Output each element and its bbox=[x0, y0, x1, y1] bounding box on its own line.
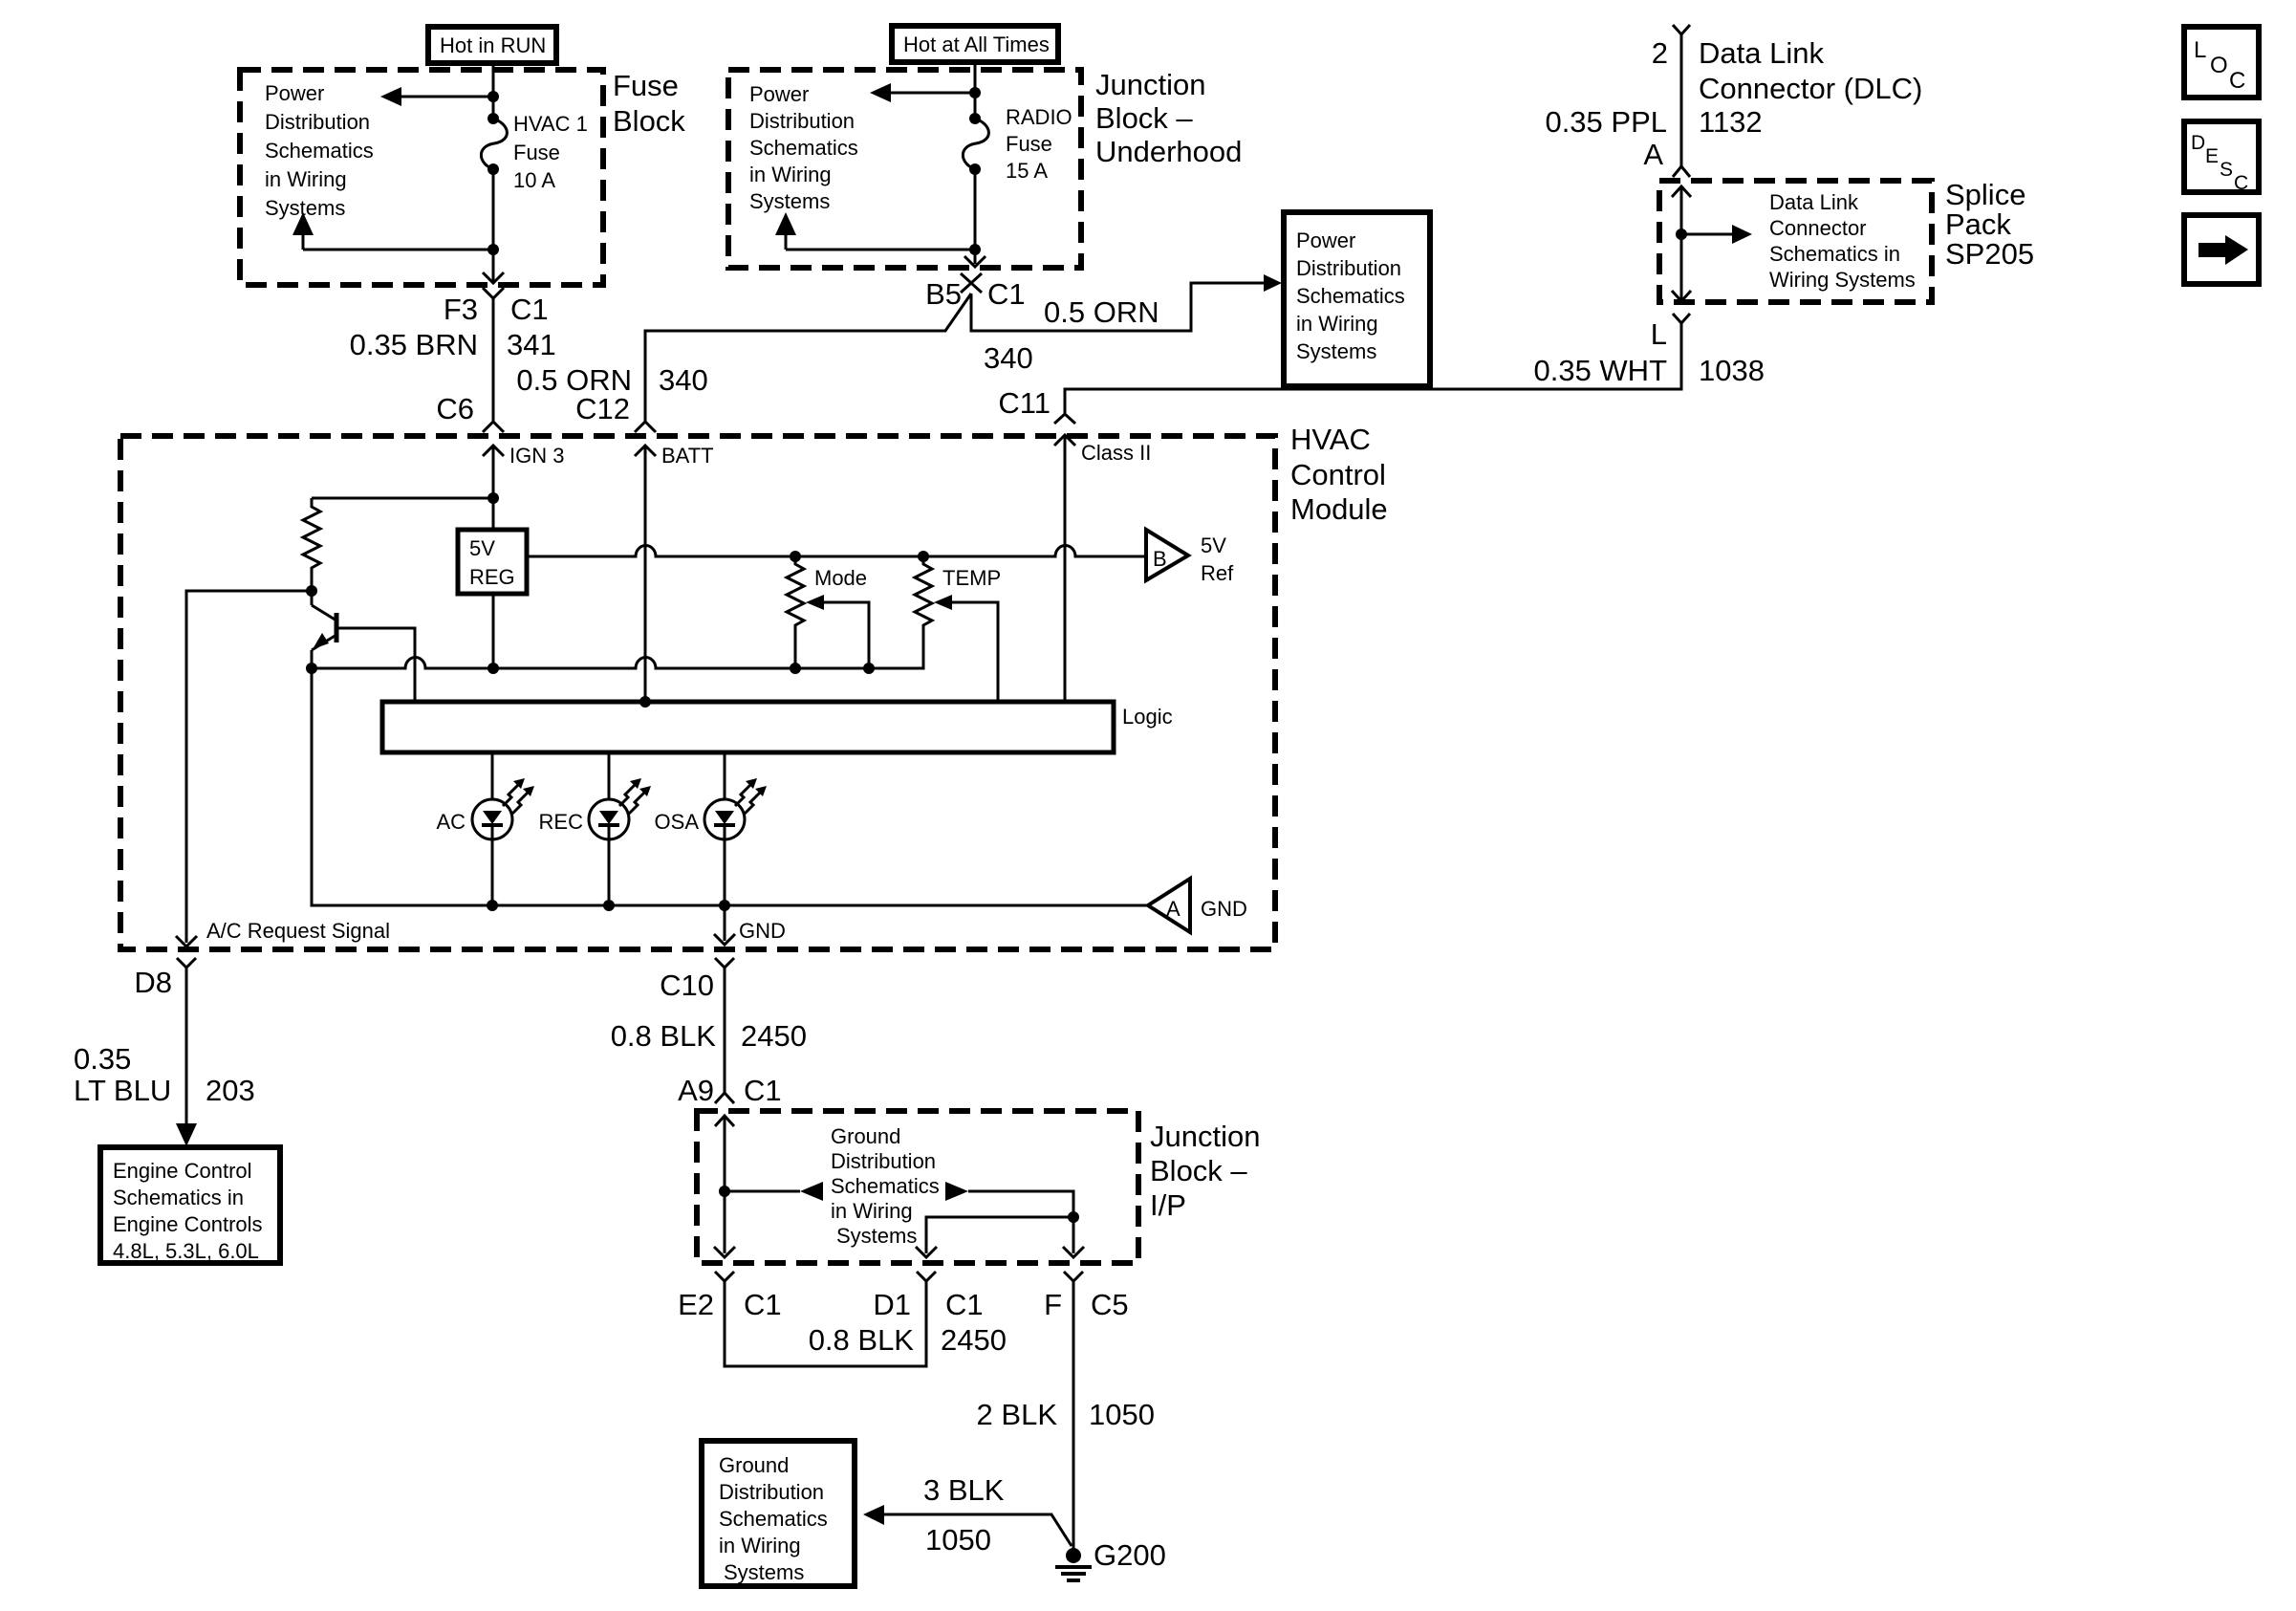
svg-text:Block –: Block – bbox=[1150, 1154, 1247, 1187]
arrow to power distribution (left) bbox=[380, 87, 493, 106]
splice node dot and arrow right bbox=[1676, 225, 1752, 244]
svg-text:BATT: BATT bbox=[661, 444, 714, 468]
Hot at All Times label box bbox=[892, 26, 1058, 62]
fuse HVAC 1 symbol bbox=[481, 113, 507, 175]
LOC box bbox=[2184, 27, 2259, 98]
3 BLK wire with arrow to box bbox=[863, 1505, 1072, 1546]
connector C11 bbox=[998, 386, 1075, 424]
splice bottom arrowhead bbox=[1672, 291, 1691, 301]
connector D1/C1 bbox=[873, 1272, 983, 1321]
connector A9/C1 bbox=[678, 1074, 782, 1107]
fuse label RADIO Fuse 15 A bbox=[1006, 105, 1072, 183]
DLC connector top bbox=[1673, 25, 1690, 166]
svg-text:Data Link: Data Link bbox=[1769, 190, 1859, 214]
svg-text:C1: C1 bbox=[510, 293, 549, 326]
Class II entry arrow bbox=[1054, 435, 1151, 702]
connector C12 bbox=[575, 392, 656, 432]
svg-text:IGN 3: IGN 3 bbox=[509, 444, 564, 468]
junction dot bbox=[969, 87, 981, 98]
wire label 0.5 ORN / 340 (right run) bbox=[984, 295, 1159, 375]
svg-text:0.5 ORN: 0.5 ORN bbox=[1044, 295, 1159, 329]
5V REG box bbox=[458, 530, 527, 594]
svg-text:C: C bbox=[2229, 68, 2245, 94]
label 2 / Data Link Connector (DLC) bbox=[1652, 36, 1923, 105]
svg-text:C: C bbox=[2234, 172, 2248, 194]
svg-text:A9: A9 bbox=[678, 1074, 714, 1107]
svg-text:Schematics: Schematics bbox=[265, 139, 374, 163]
wire label 0.35 WHT 1038 bbox=[1533, 354, 1765, 387]
svg-text:Schematics: Schematics bbox=[1296, 284, 1405, 308]
svg-text:341: 341 bbox=[507, 328, 556, 361]
svg-text:Schematics: Schematics bbox=[719, 1507, 828, 1531]
svg-text:D1: D1 bbox=[873, 1288, 911, 1321]
svg-text:Block –: Block – bbox=[1095, 101, 1193, 135]
svg-text:LT BLU: LT BLU bbox=[74, 1074, 171, 1107]
label F3 C1 bbox=[444, 293, 549, 326]
Junction Block I/P label bbox=[1150, 1120, 1260, 1222]
connector F3/C1 bbox=[483, 288, 504, 422]
svg-text:RADIO: RADIO bbox=[1006, 105, 1072, 129]
svg-text:Wiring Systems: Wiring Systems bbox=[1769, 268, 1916, 292]
Data Link Connector Schematics text bbox=[1769, 190, 1916, 292]
svg-text:HVAC 1: HVAC 1 bbox=[513, 112, 588, 136]
GND exit wire bbox=[714, 905, 786, 945]
svg-text:Schematics in: Schematics in bbox=[113, 1186, 244, 1209]
junction dot bbox=[719, 1186, 730, 1197]
wire diagonal from B5 to left run bbox=[645, 294, 971, 422]
wire label 0.35 PPL 1132 bbox=[1545, 105, 1762, 139]
svg-text:Schematics: Schematics bbox=[831, 1174, 940, 1198]
svg-text:Ref: Ref bbox=[1201, 561, 1234, 585]
svg-text:E: E bbox=[2205, 145, 2219, 167]
svg-text:1050: 1050 bbox=[925, 1523, 991, 1557]
svg-text:O: O bbox=[2210, 53, 2228, 78]
svg-text:Fuse: Fuse bbox=[613, 69, 679, 102]
svg-text:Pack: Pack bbox=[1945, 207, 2011, 241]
wire label 0.8 BLK 2450 (loop) bbox=[809, 1323, 1007, 1357]
svg-text:Distribution: Distribution bbox=[1296, 256, 1401, 280]
TEMP resistor bbox=[915, 556, 932, 631]
svg-text:Distribution: Distribution bbox=[265, 110, 370, 134]
svg-text:2450: 2450 bbox=[941, 1323, 1007, 1357]
Junction Block label bbox=[1095, 68, 1242, 168]
fuse RADIO symbol bbox=[963, 113, 988, 175]
svg-text:Distribution: Distribution bbox=[719, 1480, 824, 1504]
TEMP wiper arrow bbox=[934, 595, 998, 702]
Fuse Block label bbox=[613, 69, 685, 138]
wire from B5 down right to power dist box bbox=[971, 283, 1267, 331]
svg-text:Control: Control bbox=[1290, 458, 1386, 491]
svg-text:10 A: 10 A bbox=[513, 168, 555, 192]
connector B5/C1 break bbox=[961, 273, 982, 293]
junction dot on IGN3 wire bbox=[487, 492, 499, 504]
connector C10 bbox=[660, 958, 734, 1093]
svg-text:3 BLK: 3 BLK bbox=[923, 1473, 1005, 1507]
svg-text:1050: 1050 bbox=[1089, 1398, 1155, 1431]
return arrow up to Systems bbox=[775, 212, 975, 250]
wire from L down and left to C11 bbox=[1065, 323, 1681, 414]
svg-text:Junction: Junction bbox=[1095, 68, 1205, 101]
connector L bbox=[1651, 314, 1690, 351]
I/P entry arrow and vertical wire bbox=[714, 1116, 735, 1257]
svg-text:2 BLK: 2 BLK bbox=[977, 1398, 1058, 1431]
svg-text:Connector (DLC): Connector (DLC) bbox=[1699, 72, 1922, 105]
junction dot bbox=[487, 244, 499, 255]
svg-text:Class II: Class II bbox=[1081, 441, 1151, 465]
wire below fuse bbox=[974, 169, 977, 264]
svg-text:Fuse: Fuse bbox=[513, 141, 560, 164]
inner branch to D1 bbox=[916, 1211, 1079, 1257]
svg-text:L: L bbox=[2194, 37, 2206, 63]
svg-text:Junction: Junction bbox=[1150, 1120, 1260, 1153]
LED AC bbox=[436, 752, 534, 905]
svg-text:OSA: OSA bbox=[655, 810, 700, 834]
svg-text:C5: C5 bbox=[1091, 1288, 1129, 1321]
Ground Distribution Schematics box (solid) bbox=[702, 1441, 855, 1586]
svg-text:C1: C1 bbox=[744, 1288, 782, 1321]
exit arrowhead at fuse block bottom bbox=[483, 272, 504, 283]
wire to A/C request line bbox=[186, 591, 312, 943]
right arrow from Ground Distribution text bbox=[945, 1182, 1084, 1257]
5V line from REG right with hops bbox=[527, 545, 1144, 556]
svg-text:REC: REC bbox=[539, 810, 584, 834]
svg-text:C11: C11 bbox=[998, 386, 1051, 420]
Logic box bbox=[382, 702, 1173, 752]
Mode wiper arrow bbox=[806, 595, 869, 668]
label B5 C1 bbox=[925, 277, 1026, 311]
svg-text:GND: GND bbox=[1201, 897, 1247, 921]
Splice Pack label bbox=[1945, 178, 2034, 271]
wire below fuse bbox=[492, 169, 495, 281]
svg-text:in Wiring: in Wiring bbox=[719, 1534, 801, 1557]
ground bus bbox=[312, 668, 1148, 905]
svg-text:L: L bbox=[1651, 317, 1667, 351]
Power Distribution text (junction block) bbox=[749, 82, 858, 213]
svg-text:5V: 5V bbox=[469, 536, 495, 560]
svg-text:F3: F3 bbox=[444, 293, 478, 326]
svg-text:D: D bbox=[2191, 132, 2205, 154]
svg-text:Underhood: Underhood bbox=[1095, 135, 1242, 168]
dot at TEMP top bbox=[918, 551, 929, 562]
return arrow up to Systems bbox=[292, 212, 493, 250]
Ground Distribution text (I/P) bbox=[831, 1124, 940, 1248]
svg-text:340: 340 bbox=[659, 363, 708, 397]
svg-text:C1: C1 bbox=[744, 1074, 782, 1107]
svg-text:15 A: 15 A bbox=[1006, 159, 1048, 183]
wire from Hot in RUN down to fuse bbox=[492, 63, 495, 119]
svg-text:5V: 5V bbox=[1201, 533, 1226, 557]
Junction Block I/P dashed box bbox=[697, 1111, 1138, 1263]
svg-text:Schematics in: Schematics in bbox=[1769, 242, 1900, 266]
svg-text:0.35 PPL: 0.35 PPL bbox=[1545, 105, 1667, 139]
Fuse Block dashed box bbox=[240, 70, 603, 285]
Junction Block Underhood dashed box bbox=[728, 70, 1081, 268]
svg-text:340: 340 bbox=[984, 341, 1033, 375]
buffer A triangle GND bbox=[1148, 879, 1247, 932]
svg-text:Fuse: Fuse bbox=[1006, 132, 1052, 156]
svg-text:0.8 BLK: 0.8 BLK bbox=[809, 1323, 915, 1357]
svg-text:Logic: Logic bbox=[1122, 705, 1173, 729]
Power Distribution Schematics box (solid) bbox=[1284, 212, 1430, 386]
F wire down to G200 bbox=[1072, 1281, 1075, 1553]
left arrow to Ground Distribution text bbox=[725, 1182, 823, 1201]
buffer B triangle 5V Ref bbox=[1146, 530, 1234, 585]
fuse label HVAC 1 Fuse 10 A bbox=[513, 112, 588, 192]
svg-text:Systems: Systems bbox=[1296, 339, 1376, 363]
svg-text:Connector: Connector bbox=[1769, 216, 1867, 240]
svg-text:Power: Power bbox=[265, 81, 324, 105]
svg-text:0.35 WHT: 0.35 WHT bbox=[1533, 354, 1667, 387]
transistor Q1 bbox=[312, 591, 336, 668]
junction dot bbox=[969, 244, 981, 255]
emitter junction dot bbox=[306, 663, 317, 674]
svg-text:Hot at All Times: Hot at All Times bbox=[903, 33, 1050, 56]
wire label 0.35 LT BLU 203 bbox=[74, 1042, 255, 1107]
svg-text:REG: REG bbox=[469, 565, 515, 589]
svg-text:SP205: SP205 bbox=[1945, 237, 2034, 271]
wire label 2 BLK 1050 bbox=[977, 1398, 1155, 1431]
wire from 5V REG bottom bbox=[492, 594, 495, 668]
svg-text:Systems: Systems bbox=[749, 189, 830, 213]
A/C request exit arrowhead bbox=[176, 936, 197, 947]
svg-text:C10: C10 bbox=[660, 969, 714, 1002]
svg-text:C1: C1 bbox=[987, 277, 1026, 311]
svg-text:1132: 1132 bbox=[1699, 105, 1763, 139]
svg-text:A: A bbox=[1643, 138, 1663, 171]
dot BATT at logic bbox=[639, 696, 651, 708]
connector E2/C1 bbox=[678, 1272, 782, 1321]
junction dot resistor bottom bbox=[306, 585, 317, 597]
svg-text:Schematics: Schematics bbox=[749, 136, 858, 160]
svg-text:GND: GND bbox=[739, 919, 786, 943]
svg-text:S: S bbox=[2220, 159, 2233, 181]
svg-text:0.35: 0.35 bbox=[74, 1042, 131, 1076]
Hot in RUN label box bbox=[428, 27, 556, 63]
svg-text:Systems: Systems bbox=[724, 1560, 804, 1584]
svg-text:1038: 1038 bbox=[1699, 354, 1765, 387]
connector A bbox=[1643, 138, 1690, 177]
wire label 0.35 BRN 341 bbox=[350, 328, 556, 361]
svg-text:in Wiring: in Wiring bbox=[1296, 312, 1378, 336]
connector C6 bbox=[436, 392, 504, 432]
svg-text:Module: Module bbox=[1290, 492, 1388, 526]
exit arrowhead at junction block bottom bbox=[964, 256, 986, 267]
resistor (transistor collector load) bbox=[303, 498, 320, 591]
svg-text:F: F bbox=[1044, 1288, 1062, 1321]
svg-text:Mode: Mode bbox=[814, 566, 867, 590]
svg-text:A: A bbox=[1166, 897, 1180, 921]
svg-text:A/C Request Signal: A/C Request Signal bbox=[206, 919, 390, 943]
svg-text:0.8 BLK: 0.8 BLK bbox=[611, 1019, 717, 1053]
svg-text:HVAC: HVAC bbox=[1290, 423, 1371, 456]
svg-text:TEMP: TEMP bbox=[942, 566, 1001, 590]
svg-text:2450: 2450 bbox=[741, 1019, 807, 1053]
svg-text:I/P: I/P bbox=[1150, 1188, 1186, 1222]
svg-text:Hot in RUN: Hot in RUN bbox=[440, 33, 546, 57]
LED REC bbox=[539, 752, 651, 905]
wire label 3 BLK / 1050 bbox=[923, 1473, 1005, 1557]
Splice Pack dashed box bbox=[1659, 181, 1932, 302]
svg-text:B: B bbox=[1153, 547, 1167, 571]
svg-text:E2: E2 bbox=[678, 1288, 714, 1321]
wire label 0.8 BLK 2450 bbox=[611, 1019, 807, 1053]
arrow to power distribution (left) bbox=[870, 83, 975, 102]
svg-text:in Wiring: in Wiring bbox=[831, 1199, 913, 1223]
dots on emitter bus bbox=[790, 663, 801, 674]
svg-text:in Wiring: in Wiring bbox=[749, 163, 832, 186]
BATT entry arrow bbox=[635, 444, 714, 702]
node junction dot bbox=[487, 91, 499, 102]
svg-text:C12: C12 bbox=[575, 392, 630, 425]
IGN 3 entry arrow bbox=[483, 444, 564, 530]
svg-text:D8: D8 bbox=[134, 966, 172, 999]
svg-text:in Wiring: in Wiring bbox=[265, 167, 347, 191]
wire from Hot at All Times down bbox=[974, 62, 977, 119]
svg-text:C1: C1 bbox=[945, 1288, 984, 1321]
splice wire with up arrow bbox=[1672, 186, 1691, 299]
svg-text:Distribution: Distribution bbox=[831, 1149, 936, 1173]
wire left to resistor bbox=[312, 497, 493, 500]
svg-text:Ground: Ground bbox=[719, 1453, 789, 1477]
connector F/C5 bbox=[1044, 1272, 1129, 1321]
svg-text:G200: G200 bbox=[1094, 1538, 1166, 1572]
emitter bus with hops bbox=[312, 631, 923, 668]
transistor base wire to logic bbox=[336, 628, 415, 702]
svg-text:C6: C6 bbox=[436, 392, 474, 425]
svg-text:Block: Block bbox=[613, 104, 685, 138]
svg-text:Engine Controls: Engine Controls bbox=[113, 1212, 263, 1236]
HVAC Control Module label bbox=[1290, 423, 1388, 526]
LED OSA bbox=[655, 752, 767, 905]
svg-text:Power: Power bbox=[749, 82, 809, 106]
Engine Control Schematics box bbox=[100, 1147, 280, 1263]
svg-text:Systems: Systems bbox=[836, 1224, 917, 1248]
svg-text:2: 2 bbox=[1652, 36, 1668, 70]
svg-text:Splice: Splice bbox=[1945, 178, 2025, 211]
svg-text:203: 203 bbox=[206, 1074, 255, 1107]
Mode resistor bbox=[787, 556, 804, 668]
svg-text:B5: B5 bbox=[925, 277, 962, 311]
wire label 0.5 ORN / 340 (left run) bbox=[516, 363, 707, 397]
svg-text:Engine Control: Engine Control bbox=[113, 1159, 252, 1183]
svg-text:Ground: Ground bbox=[831, 1124, 900, 1148]
arrow box bbox=[2184, 215, 2259, 284]
svg-text:4.8L, 5.3L, 6.0L: 4.8L, 5.3L, 6.0L bbox=[113, 1239, 259, 1263]
svg-text:0.35 BRN: 0.35 BRN bbox=[350, 328, 478, 361]
Power Distribution text (fuse block) bbox=[265, 81, 374, 220]
DESC box bbox=[2184, 121, 2259, 194]
connector D8 bbox=[134, 958, 197, 1146]
svg-text:AC: AC bbox=[436, 810, 466, 834]
HVAC Control Module dashed box bbox=[120, 436, 1275, 949]
svg-text:Systems: Systems bbox=[265, 196, 345, 220]
U loop wire E2 to D1 bbox=[725, 1281, 926, 1366]
dot at Mode top bbox=[790, 551, 801, 562]
svg-text:Power: Power bbox=[1296, 229, 1355, 252]
svg-text:Data Link: Data Link bbox=[1699, 36, 1824, 70]
ground G200 bbox=[1055, 1538, 1166, 1580]
svg-text:Distribution: Distribution bbox=[749, 109, 855, 133]
